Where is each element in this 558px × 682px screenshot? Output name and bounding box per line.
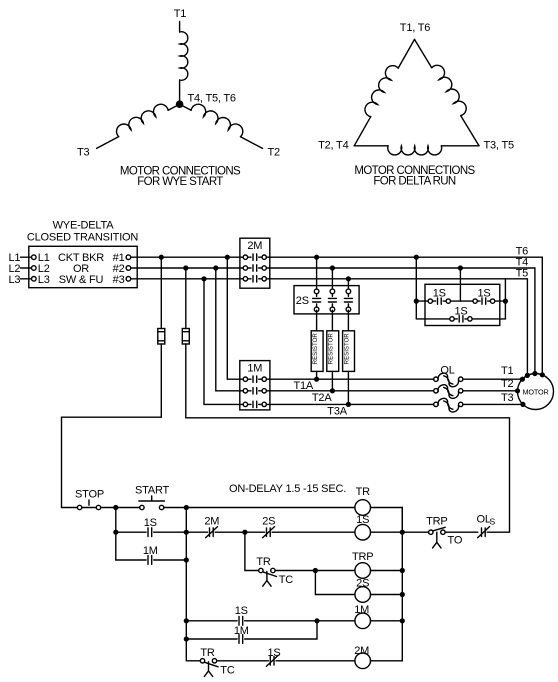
node fuse tap line 2 xyxy=(183,265,188,270)
node TR branch xyxy=(242,530,247,535)
node 1M tap line 1 xyxy=(225,255,230,260)
terminal #2 xyxy=(126,266,131,271)
contact 2M pole 1 xyxy=(243,254,266,260)
wire resistor 3 to T3A line xyxy=(347,371,349,404)
svg-text:T3: T3 xyxy=(501,392,514,404)
svg-text:TR: TR xyxy=(200,647,215,659)
contact 2M NC xyxy=(186,527,245,538)
wire line #3 to 2M xyxy=(131,278,244,280)
terminal #1 xyxy=(126,255,131,260)
winding delta bottom side xyxy=(354,145,388,147)
wire 2S pole3 to resistor 3 xyxy=(347,310,349,331)
node 1M tap line 3 xyxy=(201,276,206,281)
contact 1M pole 2 xyxy=(243,388,266,394)
svg-text:T1: T1 xyxy=(174,8,187,20)
wire 2S drop 3 xyxy=(347,279,349,289)
wire 2S coil branch xyxy=(315,571,355,595)
wire line #1 to 2M xyxy=(131,256,244,258)
contact 2S pole 3 xyxy=(344,289,352,312)
wire TR branch down xyxy=(245,532,259,570)
svg-text:TO: TO xyxy=(448,535,463,547)
node fuse tap line 1 xyxy=(159,255,164,260)
svg-text:T5: T5 xyxy=(516,268,529,280)
svg-text:RESISTOR: RESISTOR xyxy=(312,333,319,365)
disconnect box CKT BKR / SW & FU xyxy=(29,246,137,287)
node 2S tap T4 xyxy=(330,265,335,270)
contact 1S NO lower xyxy=(186,616,317,625)
svg-text:FOR WYE START: FOR WYE START xyxy=(137,176,223,188)
svg-text:1M: 1M xyxy=(234,625,249,637)
pushbutton START xyxy=(116,496,187,510)
node bus 1M rung xyxy=(400,618,405,623)
wire 2S drop 2 xyxy=(331,268,333,289)
node motor T6 top xyxy=(540,372,545,377)
wire 1S drop from T4 xyxy=(459,268,461,301)
wire OL to motor T2 xyxy=(463,390,518,392)
wire T6 line xyxy=(266,257,542,375)
wire feed 1M pole3 xyxy=(204,279,243,405)
svg-text:L3: L3 xyxy=(9,274,21,286)
node 1M coil rung xyxy=(314,618,319,623)
winding delta right side xyxy=(415,39,432,67)
contact 1M NO aux xyxy=(116,556,187,565)
svg-text:2M: 2M xyxy=(204,516,219,528)
wire T2A line to OL xyxy=(266,390,433,392)
node 1M tap line 2 xyxy=(213,265,218,270)
contact 2M pole 3 xyxy=(243,276,266,282)
node motor T1 xyxy=(520,377,525,382)
wire T3A line to OL xyxy=(266,403,433,405)
wire 2S pole2 to resistor 2 xyxy=(331,310,333,331)
wire T5 line xyxy=(266,279,527,376)
svg-text:START: START xyxy=(135,485,170,497)
svg-text:1S: 1S xyxy=(144,517,157,529)
resistor R2 xyxy=(327,331,339,372)
svg-text:T2A: T2A xyxy=(312,392,332,404)
svg-text:1S: 1S xyxy=(454,305,467,317)
svg-text:WYE-DELTA: WYE-DELTA xyxy=(53,220,115,232)
wire L2 stub xyxy=(21,267,32,269)
svg-text:RESISTOR: RESISTOR xyxy=(344,333,351,365)
node 2S tap T5 xyxy=(346,276,351,281)
node resistor3 T3A xyxy=(346,402,351,407)
wire 1S drop from T5 xyxy=(504,279,506,319)
node aux 1M right xyxy=(184,557,189,562)
motor circle xyxy=(518,374,554,410)
contact TR timed TC bottom xyxy=(200,659,268,677)
node bus 2S rung xyxy=(400,592,405,597)
wire control feed B down xyxy=(185,268,187,329)
node motor T3 xyxy=(520,402,525,407)
node motor T5 top xyxy=(525,373,530,378)
svg-text:RESISTOR: RESISTOR xyxy=(328,333,335,365)
svg-text:FOR DELTA RUN: FOR DELTA RUN xyxy=(373,175,456,187)
wire resistor 2 to T2A line xyxy=(331,371,333,390)
contact 2S pole 1 xyxy=(313,289,321,312)
contact 1M pole 3 xyxy=(243,401,266,407)
overload OL pole 2 xyxy=(434,385,463,399)
coil 1M xyxy=(355,613,371,629)
wire main rung to TR coil xyxy=(186,507,355,509)
node 1S row1 right xyxy=(503,299,508,304)
node aux 1S xyxy=(113,530,118,535)
svg-text:ON-DELAY 1.5 -15 SEC.: ON-DELAY 1.5 -15 SEC. xyxy=(229,483,346,495)
svg-text:L3: L3 xyxy=(38,274,50,286)
svg-text:1S: 1S xyxy=(235,605,248,617)
svg-text:1M: 1M xyxy=(143,545,158,557)
svg-text:1S: 1S xyxy=(433,287,446,299)
node resistor1 T1A xyxy=(314,377,319,382)
contact 1S NC bottom xyxy=(266,655,355,666)
pushbutton STOP xyxy=(62,500,116,510)
svg-text:TC: TC xyxy=(279,574,294,586)
svg-text:2S: 2S xyxy=(262,516,275,528)
overload OL pole 3 xyxy=(434,398,463,412)
wire 1S drop from T6 xyxy=(415,257,417,319)
wire OL to motor T1 xyxy=(463,378,523,380)
wire right control bus xyxy=(185,508,187,661)
contact 2M pole 2 xyxy=(243,265,266,271)
wire L1 stub xyxy=(21,256,32,258)
svg-text:TC: TC xyxy=(220,664,235,676)
node 2S tap T6 xyxy=(314,255,319,260)
node motor T4 top xyxy=(532,371,537,376)
wire TR coil to right bus xyxy=(371,508,403,532)
contact OL NC xyxy=(478,527,510,538)
contact 1S B xyxy=(460,298,505,304)
resistor R1 xyxy=(311,331,323,372)
node resistor2 T2A xyxy=(330,388,335,393)
node main rung right xyxy=(184,505,189,510)
wire T1A line to OL xyxy=(266,378,433,380)
svg-text:CLOSED TRANSITION: CLOSED TRANSITION xyxy=(27,232,139,244)
wire to TRP coil xyxy=(315,570,355,572)
node aux 1S right xyxy=(184,530,189,535)
wire left aux bus xyxy=(115,508,117,561)
svg-text:T2, T4: T2, T4 xyxy=(318,140,348,152)
svg-text:S: S xyxy=(490,517,496,527)
svg-text:TRP: TRP xyxy=(426,516,447,528)
wire control feed A to left rail xyxy=(62,344,162,508)
terminal #3 xyxy=(126,277,131,282)
fuse FU2 xyxy=(182,329,189,345)
winding delta left side xyxy=(398,39,414,68)
wire T1 lead xyxy=(179,22,181,33)
contact 2S NC xyxy=(245,527,355,538)
winding wye T3 arm xyxy=(168,104,180,110)
terminal L1 xyxy=(32,255,37,260)
terminal L2 xyxy=(32,266,37,271)
overload OL pole 1 xyxy=(434,373,463,387)
wire control feed A down xyxy=(160,257,162,328)
terminal L3 xyxy=(32,277,37,282)
node bus TRP rung xyxy=(400,568,405,573)
wire L3 stub xyxy=(21,278,32,280)
node start junction xyxy=(113,505,118,510)
wire TRP coil to bus xyxy=(371,570,403,572)
svg-text:T3: T3 xyxy=(77,147,90,159)
svg-text:1S: 1S xyxy=(477,287,490,299)
node 1S tap T4 xyxy=(458,265,463,270)
wire T4 line xyxy=(266,268,535,374)
wire line #2 to 2M xyxy=(131,267,244,269)
wire bottom rung start xyxy=(186,660,200,662)
wire 2M coil to bus corner xyxy=(371,508,403,661)
coil TRP xyxy=(355,563,371,579)
contact 1S NO aux xyxy=(116,528,187,537)
svg-text:TR: TR xyxy=(256,556,271,568)
svg-text:TRP: TRP xyxy=(352,551,373,563)
node TRP rung xyxy=(313,568,318,573)
svg-text:T3, T5: T3, T5 xyxy=(484,140,514,152)
wire 2S pole1 to resistor 1 xyxy=(316,310,318,331)
contactor 2S box xyxy=(294,286,359,314)
coil 1S xyxy=(355,524,371,540)
svg-text:1M: 1M xyxy=(247,363,262,375)
svg-text:T3A: T3A xyxy=(327,405,347,417)
contact 1S C xyxy=(416,316,505,322)
coil TR xyxy=(355,500,371,516)
svg-text:T4: T4 xyxy=(516,256,529,268)
wire OL to motor T3 xyxy=(463,403,523,405)
svg-text:2S: 2S xyxy=(296,295,309,307)
wire 1M coil to bus xyxy=(371,620,403,622)
resistor R3 xyxy=(343,331,355,372)
wire resistor 1 to T1A line xyxy=(316,371,318,379)
contact 1M NO lower xyxy=(186,621,317,644)
wire feed 1M pole1 xyxy=(227,257,243,379)
svg-text:T1: T1 xyxy=(501,365,514,377)
svg-text:T2: T2 xyxy=(268,147,281,159)
wire feed 1M pole2 xyxy=(216,268,243,391)
svg-text:#3: #3 xyxy=(113,274,125,286)
wire to 1M coil xyxy=(317,620,355,622)
wire 1S coil to TRP contact xyxy=(371,531,429,533)
coil 2S xyxy=(355,587,371,603)
contactor 1M box xyxy=(240,361,270,410)
fuse FU1 xyxy=(158,329,165,345)
contact 1M pole 1 xyxy=(243,376,266,382)
node motor T2 xyxy=(515,388,520,393)
wire 2S drop 1 xyxy=(316,257,318,289)
node bus 1S rung xyxy=(400,530,405,535)
svg-text:TR: TR xyxy=(356,486,371,498)
contactor 1S box xyxy=(425,284,500,325)
contact TR timed TC xyxy=(259,568,316,586)
svg-text:2M: 2M xyxy=(247,240,262,252)
node 1S tap T6 xyxy=(414,255,419,260)
winding wye T1 coil xyxy=(180,32,188,81)
svg-text:T2: T2 xyxy=(501,378,514,390)
contactor 2M box xyxy=(240,238,270,288)
svg-text:T1, T6: T1, T6 xyxy=(400,22,430,34)
svg-text:MOTOR: MOTOR xyxy=(522,387,548,396)
contact 1S A xyxy=(416,298,460,304)
winding wye T2 arm xyxy=(180,104,192,110)
wire 2S coil to bus xyxy=(371,594,403,596)
node bus left 1M rung xyxy=(184,636,189,641)
node 1S row1 left xyxy=(414,299,419,304)
wire T1 to center xyxy=(179,80,181,104)
node T4,T5,T6 center dot xyxy=(176,100,184,108)
svg-text:T4, T5, T6: T4, T5, T6 xyxy=(188,93,236,105)
contact 2S pole 2 xyxy=(328,289,336,312)
svg-text:SW & FU: SW & FU xyxy=(59,274,104,286)
coil 2M xyxy=(355,653,371,669)
svg-text:T1A: T1A xyxy=(294,380,314,392)
svg-text:STOP: STOP xyxy=(75,489,104,501)
wire control feed B to right return xyxy=(186,344,510,532)
contact TRP timed TO xyxy=(429,527,478,548)
node bus left 1S rung xyxy=(184,618,189,623)
